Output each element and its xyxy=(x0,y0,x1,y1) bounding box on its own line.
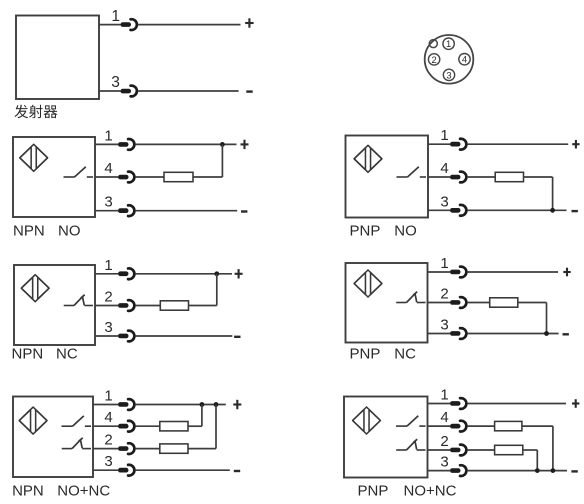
pin 4 connector plug (NPN NO+NC) xyxy=(118,421,134,432)
wire pin 3 to - terminal xyxy=(138,90,239,92)
+ terminal (NPN NO+NC) xyxy=(233,400,241,409)
pin 3 wire from box (PNP NO+NC) xyxy=(428,470,451,472)
pin 2 wire from box (NPN NC) xyxy=(95,305,118,307)
svg-text:3: 3 xyxy=(446,69,451,80)
svg-text:NC: NC xyxy=(56,346,78,363)
pin 4 wire from box (PNP NO+NC) xyxy=(428,425,451,427)
wire resistor to junction (NPN NO+NC) xyxy=(188,448,216,450)
- terminal (NPN NC) xyxy=(234,336,240,338)
pin 1 wire to + (NPN NC) xyxy=(136,273,232,275)
pin 3 connector plug (NPN NO+NC) xyxy=(118,465,134,476)
pin 2 connector plug (PNP NC) xyxy=(450,297,466,308)
- terminal (PNP NO) xyxy=(572,210,578,212)
pin 3 wire from box (NPN NC) xyxy=(95,335,118,337)
svg-text:1: 1 xyxy=(104,127,112,144)
pin 2 connector plug (NPN NC) xyxy=(118,300,134,311)
junction dot on + line (NPN NC) xyxy=(214,271,219,276)
NC switch contact (PNP NO+NC) xyxy=(396,439,425,450)
pin 1 connector plug (PNP NC) xyxy=(450,267,466,278)
NO switch contact (PNP NO) xyxy=(397,167,427,177)
load resistor on pin 2 (PNP NO+NC) xyxy=(495,445,523,454)
pin 1 connector plug (NPN NO+NC) xyxy=(118,399,134,410)
wire pin 1 from box to connector xyxy=(99,24,121,26)
sensor symbol (NPN NO) xyxy=(20,144,48,171)
wire resistor to junction (PNP NO) xyxy=(524,176,553,178)
junction dot on - line (PNP NC) xyxy=(544,331,549,336)
junction dot on - line (PNP NO) xyxy=(550,208,555,213)
svg-text:NPN: NPN xyxy=(12,483,44,500)
pin 2 connector plug (NPN NO+NC) xyxy=(118,443,134,454)
pin 1 wire to + (NPN NO+NC) xyxy=(136,404,226,406)
sensor symbol (PNP NO) xyxy=(354,145,382,172)
pin 3 wire to - (NPN NC) xyxy=(136,335,233,337)
svg-text:2: 2 xyxy=(431,54,436,65)
pin 3 wire to - (PNP NO+NC) xyxy=(468,470,567,472)
pin 2 wire to resistor (PNP NO+NC) xyxy=(468,449,495,451)
NO switch contact (PNP NO+NC) xyxy=(396,416,426,426)
svg-text:4: 4 xyxy=(104,409,112,426)
pin 1 wire to + (PNP NC) xyxy=(468,271,558,273)
pin 3 connector plug (NPN NO) xyxy=(118,205,134,216)
wire resistor to junction (PNP NO+NC) xyxy=(522,425,553,427)
pin 4 wire to resistor (PNP NO+NC) xyxy=(468,425,495,427)
- terminal (NPN NO) xyxy=(241,210,247,212)
NO switch contact (NPN NO+NC) xyxy=(62,416,92,426)
svg-text:3: 3 xyxy=(440,317,448,334)
pin 4 connector plug (PNP NO) xyxy=(450,172,466,183)
pin 3 wire from box (PNP NC) xyxy=(428,333,451,335)
svg-text:1: 1 xyxy=(111,8,120,25)
svg-text:1: 1 xyxy=(104,388,112,405)
pin 3 wire to - (PNP NO) xyxy=(468,209,567,211)
svg-text:1: 1 xyxy=(440,127,448,144)
transmitter box xyxy=(16,16,99,100)
svg-text:4: 4 xyxy=(440,160,448,177)
vertical wire to rail (NPN NO+NC) xyxy=(201,405,203,427)
svg-text:PNP: PNP xyxy=(350,223,381,240)
pin 3 wire from box (NPN NO+NC) xyxy=(93,469,118,471)
sensor symbol (NPN NC) xyxy=(21,275,49,302)
svg-text:4: 4 xyxy=(462,54,467,65)
svg-text:3: 3 xyxy=(111,74,120,91)
junction dot on - line (PNP NO+NC) xyxy=(535,468,540,473)
pin 2 wire to resistor (NPN NO+NC) xyxy=(136,448,160,450)
svg-text:4: 4 xyxy=(104,160,112,177)
sensor box (NPN NC) xyxy=(14,265,95,345)
load resistor on pin 2 (NPN NC) xyxy=(160,301,188,310)
svg-text:2: 2 xyxy=(440,433,448,450)
svg-text:NO: NO xyxy=(58,223,81,240)
pin 2 wire from box (PNP NC) xyxy=(428,302,451,304)
svg-text:PNP: PNP xyxy=(350,346,381,363)
+ terminal (PNP NO) xyxy=(572,140,579,149)
vertical wire to rail (PNP NO) xyxy=(552,177,554,210)
wire resistor to junction (NPN NC) xyxy=(189,305,217,307)
pin 1 connector plug (NPN NO) xyxy=(118,139,134,150)
load resistor on pin 4 (NPN NO+NC) xyxy=(160,422,188,431)
junction dot on - line (PNP NO+NC) xyxy=(551,468,556,473)
svg-text:1: 1 xyxy=(440,387,448,404)
+ terminal (PNP NO+NC) xyxy=(572,399,579,408)
sensor box (PNP NO+NC) xyxy=(344,397,428,478)
NC switch contact (NPN NC) xyxy=(64,295,93,306)
M12 pin 1 circle xyxy=(443,38,454,49)
vertical wire to rail (PNP NO+NC) xyxy=(552,426,554,471)
load resistor on pin 4 (NPN NO) xyxy=(164,172,193,181)
+ terminal (NPN NC) xyxy=(235,269,243,278)
M12 connector outer circle xyxy=(425,35,474,84)
svg-text:1: 1 xyxy=(446,38,451,49)
pin 2 wire from box (NPN NO+NC) xyxy=(93,448,118,450)
pin 1 wire to + (PNP NO) xyxy=(468,143,569,145)
svg-text:NPN: NPN xyxy=(12,346,44,363)
wire pin 1 to + terminal xyxy=(138,24,240,26)
pin 3 connector plug (NPN NC) xyxy=(118,331,134,342)
pin 1 connector plug (PNP NO) xyxy=(450,139,466,150)
+ terminal (transmitter) xyxy=(245,18,253,27)
load resistor on pin 2 (NPN NO+NC) xyxy=(160,444,188,453)
junction dot on + line (NPN NO) xyxy=(220,142,225,147)
+ terminal (PNP NC) xyxy=(563,268,570,277)
wire resistor to junction (NPN NO+NC) xyxy=(188,425,202,427)
pin 1 wire from box (PNP NO) xyxy=(428,143,450,145)
pin 1 connector plug (PNP NO+NC) xyxy=(450,398,466,409)
pin 3 wire from box (PNP NO) xyxy=(428,209,450,211)
label 发射器 (transmitter) xyxy=(14,105,57,119)
pin 3 connector plug (PNP NC) xyxy=(450,328,466,339)
svg-text:PNP: PNP xyxy=(358,483,389,500)
svg-text:NO+NC: NO+NC xyxy=(57,483,110,500)
svg-text:2: 2 xyxy=(104,432,112,449)
pin 3 wire to - (PNP NC) xyxy=(468,333,559,335)
pin 1 wire to + (NPN NO) xyxy=(136,143,237,145)
vertical wire to rail (PNP NO+NC) xyxy=(536,450,538,471)
svg-text:2: 2 xyxy=(104,289,112,306)
svg-text:3: 3 xyxy=(104,194,112,211)
- terminal (PNP NC) xyxy=(563,333,569,335)
load resistor on pin 2 (PNP NC) xyxy=(490,298,518,307)
pin 2 connector plug (PNP NO+NC) xyxy=(450,445,466,456)
pin 3 wire from box (NPN NO) xyxy=(95,210,118,212)
+ terminal (NPN NO) xyxy=(241,140,249,149)
pin 1 wire to + (PNP NO+NC) xyxy=(468,403,566,405)
M12 pin 3 circle xyxy=(443,69,454,80)
svg-text:4: 4 xyxy=(440,409,448,426)
junction dot on + line (NPN NO+NC) xyxy=(214,402,219,407)
sensor box (NPN NO) xyxy=(13,137,95,217)
pin 1 wire from box (NPN NC) xyxy=(95,273,118,275)
- terminal (NPN NO+NC) xyxy=(234,470,240,472)
vertical wire to rail (NPN NC) xyxy=(216,274,218,306)
svg-text:NO+NC: NO+NC xyxy=(404,483,457,500)
load resistor on pin 4 (PNP NO) xyxy=(495,172,523,181)
load resistor on pin 4 (PNP NO+NC) xyxy=(495,421,522,430)
svg-text:3: 3 xyxy=(104,319,112,336)
svg-text:NC: NC xyxy=(394,346,416,363)
pin 4 wire from box (NPN NO+NC) xyxy=(93,425,118,427)
pin 3 connector plug (PNP NO+NC) xyxy=(450,465,466,476)
pin 4 wire from box (PNP NO) xyxy=(428,176,450,178)
svg-text:1: 1 xyxy=(104,257,112,274)
pin 1 connector plug (NPN NC) xyxy=(118,268,134,279)
- terminal (PNP NO+NC) xyxy=(571,470,577,472)
pin 3 wire to - (NPN NO+NC) xyxy=(136,469,230,471)
wire resistor to junction (PNP NC) xyxy=(518,302,547,304)
pin 1 wire from box (PNP NC) xyxy=(428,271,451,273)
- terminal (transmitter) xyxy=(246,90,252,92)
wire resistor to junction (PNP NO+NC) xyxy=(523,449,538,451)
vertical wire to rail (NPN NO+NC) xyxy=(215,405,217,449)
svg-text:NO: NO xyxy=(394,223,417,240)
sensor box (NPN NO+NC) xyxy=(13,397,93,478)
sensor box (PNP NO) xyxy=(346,136,429,218)
pin 3 connector plug (PNP NO) xyxy=(450,205,466,216)
sensor symbol (PNP NC) xyxy=(354,270,382,297)
pin 3 connector plug xyxy=(121,86,137,97)
NC switch contact (PNP NC) xyxy=(396,292,425,303)
pin 4 connector plug (NPN NO) xyxy=(118,172,134,183)
svg-text:NPN: NPN xyxy=(13,223,45,240)
pin 4 wire from box (NPN NO) xyxy=(95,176,118,178)
pin 3 wire to - (NPN NO) xyxy=(136,210,238,212)
wire pin 3 from box to connector xyxy=(99,90,121,92)
M12 pin 2 circle xyxy=(428,54,439,65)
pin 2 wire to resistor (PNP NC) xyxy=(468,302,490,304)
pin 2 wire to resistor (NPN NC) xyxy=(136,305,161,307)
svg-text:2: 2 xyxy=(440,286,448,303)
svg-text:3: 3 xyxy=(440,193,448,210)
svg-text:3: 3 xyxy=(104,453,112,470)
NO switch contact (NPN NO) xyxy=(64,167,94,177)
M12 keying notch xyxy=(429,40,437,48)
wire resistor to junction (NPN NO) xyxy=(193,176,222,178)
vertical wire to rail (PNP NC) xyxy=(546,303,548,334)
pin 4 wire to resistor (NPN NO) xyxy=(136,176,164,178)
junction dot on + line (NPN NO+NC) xyxy=(200,402,205,407)
pin 4 connector plug (PNP NO+NC) xyxy=(450,421,466,432)
pin 1 wire from box (PNP NO+NC) xyxy=(428,403,451,405)
svg-text:3: 3 xyxy=(440,454,448,471)
vertical wire to rail (NPN NO) xyxy=(221,144,223,177)
pin 1 wire from box (NPN NO) xyxy=(95,143,118,145)
pin 1 wire from box (NPN NO+NC) xyxy=(93,404,118,406)
svg-text:1: 1 xyxy=(440,255,448,272)
pin 1 connector plug xyxy=(121,19,137,30)
NC switch contact (NPN NO+NC) xyxy=(62,438,91,449)
sensor box (PNP NC) xyxy=(346,263,428,343)
sensor symbol (PNP NO+NC) xyxy=(353,407,381,434)
pin 4 wire to resistor (PNP NO) xyxy=(468,176,496,178)
pin 2 wire from box (PNP NO+NC) xyxy=(428,449,451,451)
pin 4 wire to resistor (NPN NO+NC) xyxy=(136,425,160,427)
M12 pin 4 circle xyxy=(459,54,470,65)
sensor symbol (NPN NO+NC) xyxy=(19,407,47,434)
